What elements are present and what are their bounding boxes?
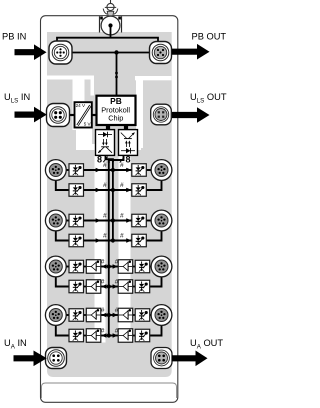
svg-text:8: 8 xyxy=(97,155,102,165)
svg-text:#: # xyxy=(103,233,107,240)
wire left connector group4 down to coupler row8 xyxy=(56,324,70,336)
connector right group2 (input channels) xyxy=(151,210,172,231)
panel white stripe right column xyxy=(136,80,143,148)
wire input bank to input bus with 8-bit slash xyxy=(106,155,113,162)
output driver row6 left xyxy=(86,280,101,294)
optocoupler bank U3 (outputs, LED on bottom) xyxy=(119,130,138,156)
panel white stripe stub near chip xyxy=(91,80,95,96)
input coupler row3 left xyxy=(69,214,84,227)
svg-text:#: # xyxy=(120,213,124,220)
input coupler row3 right xyxy=(132,214,147,227)
panel white strip right i/o column xyxy=(119,150,131,343)
module gray panel xyxy=(47,32,172,377)
arrow UA OUT xyxy=(172,351,208,367)
wire DC converter to protocol chip xyxy=(91,114,97,116)
input coupler row1 left xyxy=(69,164,84,177)
arrow UA IN xyxy=(14,351,47,367)
svg-text:PB IN: PB IN xyxy=(2,31,26,41)
wire input row4 left link xyxy=(83,240,113,242)
connector left group2 (input channels) xyxy=(45,210,66,231)
node marks on chip feed wire xyxy=(115,72,118,75)
wire output row5 right link xyxy=(109,266,119,268)
output driver row8 left xyxy=(86,329,101,343)
svg-text:#: # xyxy=(120,162,124,169)
wire row6 coupler to driver left xyxy=(83,286,88,288)
wire left connector group3 down to coupler row6 xyxy=(56,276,70,287)
functional earth terminal above module xyxy=(103,0,118,16)
module label plate xyxy=(42,383,177,398)
DC/DC converter 24V to 5V xyxy=(75,102,92,127)
input coupler row4 right xyxy=(132,234,147,247)
wire right coupler row4 up to right connector group2 xyxy=(145,230,161,241)
wire ULS IN connector to DC converter xyxy=(68,114,75,116)
wire left connector group4 to coupler row7 xyxy=(64,314,70,316)
arrow ULS IN xyxy=(15,107,47,123)
wire left connector group1 to coupler row1 xyxy=(64,169,70,171)
panel white stripe left step xyxy=(80,144,97,150)
wire row6 driver to coupler right xyxy=(132,286,137,288)
wire right coupler row5 to right connector group3 xyxy=(149,266,156,268)
wire right coupler row3 to right connector group2 xyxy=(145,220,155,222)
module housing outline xyxy=(41,16,178,403)
output driver row8 right xyxy=(118,329,133,343)
wire input row3 left link xyxy=(83,220,113,222)
wire row5 driver to coupler right xyxy=(132,266,137,268)
arrow PB OUT xyxy=(172,44,210,60)
PB data wire PB IN to PB OUT xyxy=(66,52,152,54)
wire left connector group2 down to coupler row4 xyxy=(56,230,70,241)
wire left connector group2 to coupler row3 xyxy=(64,220,70,222)
wire chip to input coupler bank xyxy=(106,125,110,130)
wire input row3 right link xyxy=(113,220,133,222)
node PB bus junction xyxy=(114,50,118,54)
node input bus row3 xyxy=(111,218,115,222)
wire output row7 left link xyxy=(100,314,109,316)
wire right coupler row8 up to right connector group4 xyxy=(149,324,162,336)
node output bus row7 xyxy=(107,313,111,317)
wire row7 coupler to driver left xyxy=(83,314,88,316)
wire output row6 right link xyxy=(109,286,119,288)
wire right coupler row6 up to right connector group3 xyxy=(149,276,162,287)
wire left connector group3 to coupler row5 xyxy=(64,266,70,268)
connector left group3 (output channels) xyxy=(45,256,66,277)
connector left group1 (input channels) xyxy=(45,160,66,181)
svg-text:PB OUT: PB OUT xyxy=(192,31,227,41)
output coupler row6 right xyxy=(135,280,150,293)
input coupler row4 left xyxy=(69,234,84,247)
input coupler row2 left xyxy=(69,184,84,197)
svg-text:#: # xyxy=(103,213,107,220)
connector X6 UA OUT (female M12) xyxy=(151,348,172,369)
connector X2 PB OUT (female M12) xyxy=(150,42,172,64)
wire input row1 right link xyxy=(113,169,133,171)
arrow PB IN xyxy=(15,44,47,60)
input bus vertical line xyxy=(112,159,114,240)
svg-text:#: # xyxy=(103,182,107,189)
svg-text:5 V: 5 V xyxy=(84,122,92,127)
output driver row5 left xyxy=(86,260,101,274)
arrow ULS OUT xyxy=(172,107,210,123)
node input bus row4 xyxy=(111,238,115,242)
panel white strip left i/o column xyxy=(95,150,106,343)
output driver row7 left xyxy=(86,308,101,322)
wire input row2 right link xyxy=(113,189,133,191)
wire FE connector to shield rail xyxy=(110,26,112,39)
panel white stripe upper left xyxy=(47,76,94,80)
wire output row5 left link xyxy=(100,266,109,268)
connector right group1 (input channels) xyxy=(151,160,172,181)
wire input row4 right link xyxy=(113,240,133,242)
svg-text:#: # xyxy=(120,182,124,189)
shield wire linking PB IN / PB OUT connector shells xyxy=(57,38,158,42)
node output bus row6 xyxy=(107,284,111,288)
wire right coupler row2 up to right connector group1 xyxy=(145,179,161,190)
wire output bank to output bus with 8-bit slash xyxy=(109,155,124,163)
op-amp U1 PB Protokoll Chip xyxy=(97,96,136,125)
wire right coupler row7 to right connector group4 xyxy=(149,314,156,316)
node input bus row1 xyxy=(111,168,115,172)
output coupler row5 left xyxy=(69,260,84,273)
wire input row1 left link xyxy=(83,169,113,171)
svg-text:#: # xyxy=(120,233,124,240)
panel white stripe upper right xyxy=(135,76,172,80)
output driver row7 right xyxy=(118,308,133,322)
panel white stripe right step xyxy=(119,144,142,150)
output coupler row7 left xyxy=(69,309,84,322)
wire input row2 left link xyxy=(83,189,113,191)
wire chip to output coupler bank xyxy=(124,125,128,130)
wire row5 coupler to driver left xyxy=(83,266,88,268)
node output bus row5 xyxy=(107,264,111,268)
FE shield connector on module top xyxy=(101,16,120,35)
wire row7 driver to coupler right xyxy=(132,314,137,316)
wire PB junction down to protocol chip xyxy=(116,53,118,97)
output driver row6 right xyxy=(118,280,133,294)
wire output row8 right link xyxy=(109,335,119,337)
wire output row8 left link xyxy=(100,335,109,337)
output coupler row5 right xyxy=(135,260,150,273)
svg-text:24 V: 24 V xyxy=(76,103,86,108)
output coupler row6 left xyxy=(69,280,84,293)
connector X1 PB IN (male M12) xyxy=(49,41,72,64)
wire row8 coupler to driver left xyxy=(83,335,88,337)
svg-text:8: 8 xyxy=(125,155,130,165)
wire output row7 right link xyxy=(109,314,119,316)
wire row8 driver to coupler right xyxy=(132,335,137,337)
connector left group4 (output channels) xyxy=(45,305,66,326)
output coupler row8 left xyxy=(69,329,84,342)
output driver row5 right xyxy=(118,260,133,274)
top recess for FE connector xyxy=(100,16,122,32)
panel white stripe left column above converter xyxy=(73,80,85,131)
input coupler row1 right xyxy=(132,164,147,177)
node output bus row8 xyxy=(107,333,111,337)
input coupler row2 right xyxy=(132,184,147,197)
node input bus row2 xyxy=(111,188,115,192)
svg-text:#: # xyxy=(103,162,107,169)
optocoupler bank U2 (inputs, LED on top) xyxy=(96,130,115,156)
connector X5 UA IN (male M12) xyxy=(46,348,67,369)
wire output row6 left link xyxy=(100,286,109,288)
output coupler row7 right xyxy=(135,309,150,322)
output bus vertical line xyxy=(108,160,110,336)
panel white stripe left column below converter xyxy=(76,128,92,151)
output coupler row8 right xyxy=(135,329,150,342)
connector right group3 (output channels) xyxy=(151,256,172,277)
svg-text:Chip: Chip xyxy=(108,114,123,123)
connector right group4 (output channels) xyxy=(151,305,172,326)
connector X3 ULS IN (male M12) xyxy=(47,104,70,127)
connector X4 ULS OUT (female M12) xyxy=(151,104,172,125)
wire right coupler row1 to right connector group1 xyxy=(145,169,155,171)
wire left connector group1 down to coupler row2 xyxy=(56,179,70,190)
